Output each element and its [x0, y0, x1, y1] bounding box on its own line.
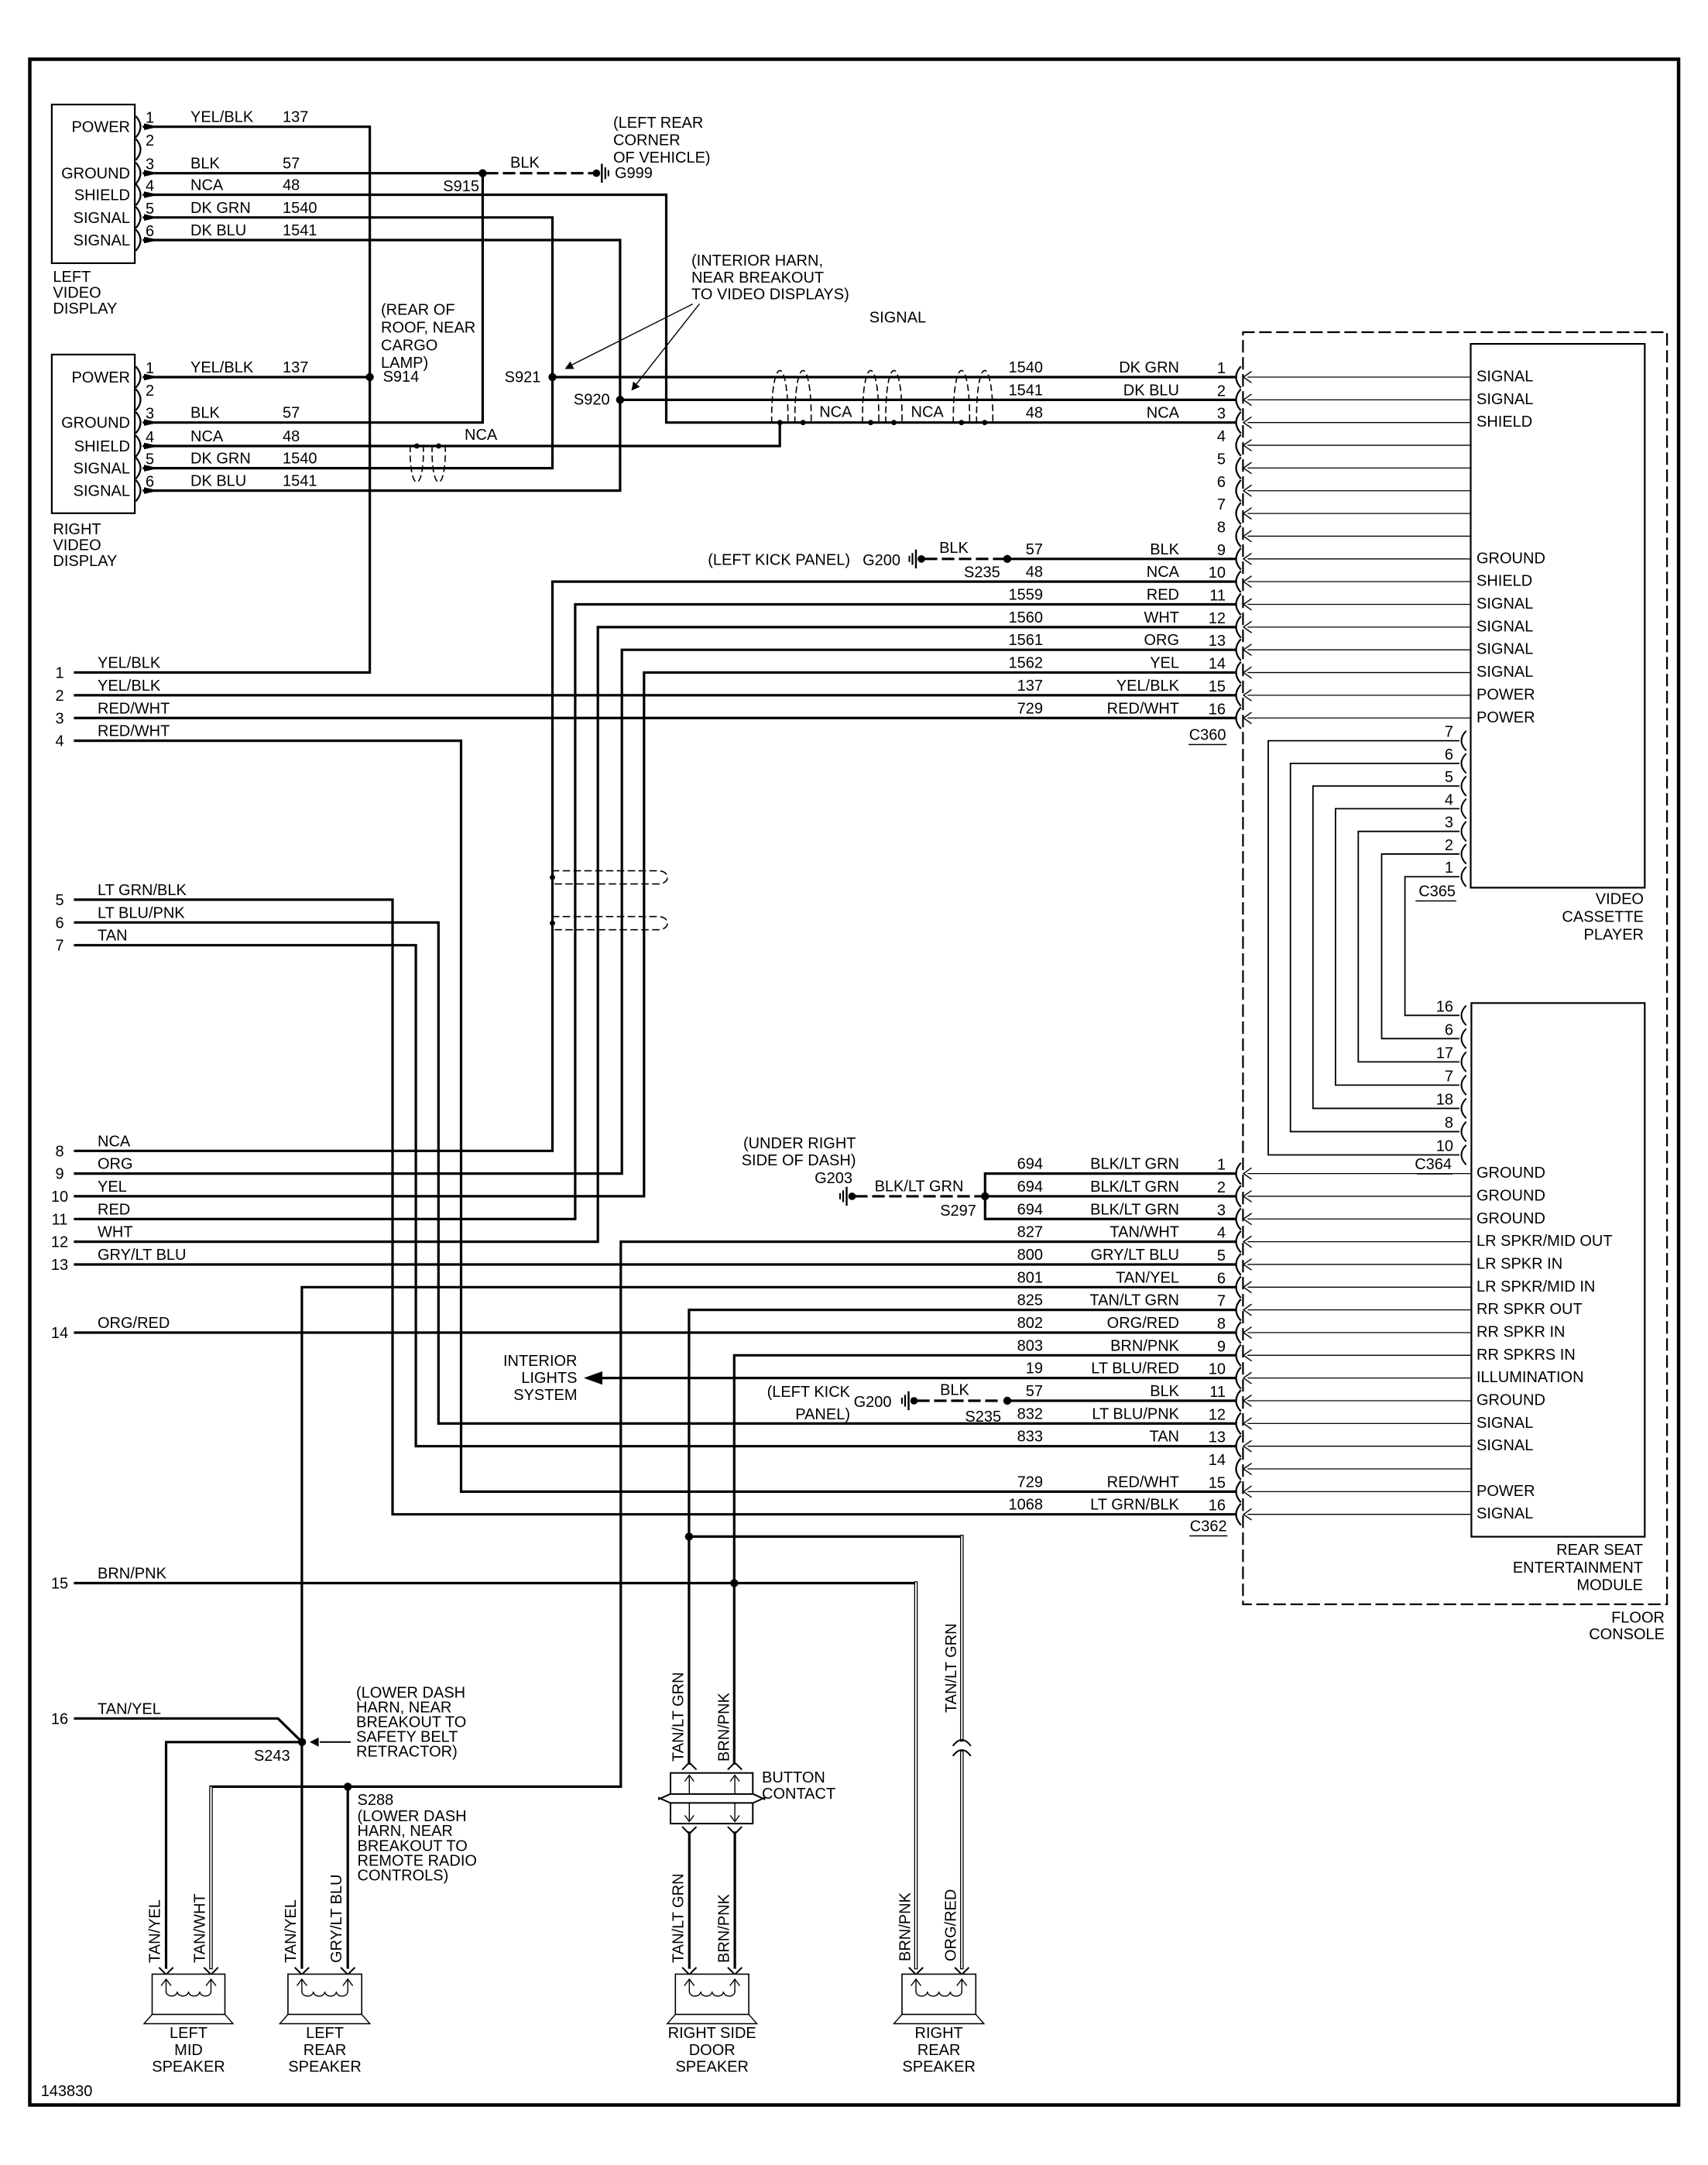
wire from video cassette player C365 pin 7 to module C364 pin 10	[1268, 741, 1459, 1155]
svg-text:12: 12	[51, 1234, 68, 1251]
svg-text:SHIELD: SHIELD	[74, 438, 130, 455]
svg-text:12: 12	[1209, 1406, 1226, 1423]
svg-text:GROUND: GROUND	[1476, 1392, 1545, 1409]
svg-text:PANEL): PANEL)	[795, 1406, 850, 1423]
svg-text:1: 1	[55, 665, 63, 682]
svg-text:RED/WHT: RED/WHT	[98, 723, 170, 740]
splice S297	[940, 1192, 989, 1220]
wire TAN/LT GRN 825 from C362 pin 7 down to junction dot	[689, 1310, 1234, 1537]
svg-text:6: 6	[1445, 1021, 1453, 1038]
svg-text:48: 48	[283, 428, 300, 445]
svg-text:LT GRN/BLK: LT GRN/BLK	[98, 882, 187, 899]
svg-text:VIDEO: VIDEO	[1596, 891, 1644, 908]
svg-text:LR SPKR IN: LR SPKR IN	[1476, 1255, 1562, 1272]
connector label C360	[1189, 727, 1226, 745]
svg-text:1: 1	[1217, 1157, 1226, 1174]
wire ORG 1561 from C360 pin 13 down to stub 9	[75, 650, 1234, 1173]
svg-text:ORG/RED: ORG/RED	[1107, 1315, 1179, 1332]
svg-text:BLK: BLK	[939, 540, 969, 557]
svg-text:CARGO: CARGO	[381, 337, 437, 354]
connector C364 pin 10 bracket	[1436, 1137, 1466, 1164]
rotated wire label BRN/PNK at right rear speaker	[897, 1892, 914, 1961]
svg-text:DK GRN: DK GRN	[190, 200, 251, 217]
wire TAN/YEL from S243 left to left mid speaker	[166, 1742, 303, 1968]
ground G203 (under right side of dash)	[815, 1170, 856, 1205]
connector C360 pin 5	[1217, 451, 1471, 478]
svg-text:TAN: TAN	[1149, 1429, 1179, 1446]
stub 5 label LT GRN/BLK	[55, 882, 187, 909]
connector C362 pin 16	[1009, 1497, 1534, 1525]
svg-text:G200: G200	[854, 1394, 892, 1411]
wire BLK 57 from left video display pin 3 to splice S915	[144, 156, 482, 177]
svg-text:SIGNAL: SIGNAL	[1476, 391, 1533, 408]
svg-text:694: 694	[1017, 1156, 1043, 1173]
label INTERIOR LIGHTS SYSTEM	[503, 1353, 578, 1404]
svg-text:1561: 1561	[1009, 632, 1044, 649]
splice S243 (lower dash harness)	[254, 1738, 306, 1765]
svg-text:BRN/PNK: BRN/PNK	[716, 1692, 733, 1762]
svg-text:SPEAKER: SPEAKER	[288, 2059, 361, 2076]
wire DK GRN 1540 from left video display pin 5 to splice S921	[144, 200, 553, 377]
stub 15 label BRN/PNK	[51, 1566, 167, 1593]
svg-text:BRN/PNK: BRN/PNK	[1110, 1337, 1180, 1354]
wire NCA 48 from C360 pin 10 down to stub 8	[75, 582, 1234, 1151]
stub 6 label LT BLU/PNK	[55, 904, 185, 932]
svg-text:11: 11	[1209, 588, 1226, 605]
svg-text:7: 7	[55, 938, 63, 955]
svg-text:2: 2	[1217, 383, 1226, 400]
svg-text:TAN/WHT: TAN/WHT	[192, 1893, 209, 1963]
rotated wire label BRN/PNK above button contact	[716, 1692, 733, 1762]
svg-text:1541: 1541	[283, 222, 317, 239]
svg-text:(REAR OF: (REAR OF	[381, 302, 455, 319]
rotated wire label BRN/PNK at right side door speaker	[716, 1893, 733, 1963]
svg-text:9: 9	[1217, 542, 1226, 559]
wire from video cassette player C365 pin 4 to module C364 pin 7	[1336, 808, 1459, 1085]
connector C364 pin 6 bracket	[1445, 1021, 1466, 1048]
right video display pin 4 bracket	[136, 429, 154, 456]
svg-text:POWER: POWER	[1476, 686, 1535, 703]
svg-text:BLK/LT GRN: BLK/LT GRN	[1090, 1179, 1179, 1196]
ground G200 at left kick panel (C360 pin 9)	[863, 551, 925, 569]
svg-text:(INTERIOR HARN,: (INTERIOR HARN,	[691, 252, 823, 269]
svg-text:SIGNAL: SIGNAL	[74, 232, 130, 249]
svg-text:1541: 1541	[283, 473, 317, 490]
svg-text:LEFT: LEFT	[170, 2025, 207, 2042]
connector C360 pin 4	[1217, 428, 1471, 455]
rotated wire label ORG/RED at right rear speaker	[943, 1889, 960, 1961]
svg-text:TAN/WHT: TAN/WHT	[1110, 1224, 1179, 1241]
stub 3 label RED/WHT	[55, 700, 170, 727]
svg-text:GROUND: GROUND	[1476, 1210, 1545, 1227]
svg-text:48: 48	[1026, 405, 1043, 422]
wire DK GRN 1540 from right video display pin 5 up to splice S921	[144, 377, 553, 472]
svg-text:RIGHT: RIGHT	[53, 521, 101, 538]
connector box U1: LEFT VIDEO DISPLAY	[52, 105, 135, 317]
svg-text:LEFT: LEFT	[53, 269, 91, 286]
note: UNDER RIGHT SIDE OF DASH	[742, 1135, 856, 1169]
svg-text:CASSETTE: CASSETTE	[1562, 909, 1644, 926]
svg-text:CORNER: CORNER	[613, 132, 681, 149]
svg-text:BLK/LT GRN: BLK/LT GRN	[1090, 1201, 1179, 1218]
svg-text:143830: 143830	[41, 2083, 93, 2100]
svg-text:RIGHT SIDE: RIGHT SIDE	[668, 2025, 756, 2042]
svg-text:19: 19	[1026, 1360, 1043, 1378]
wire YEL/BLK 137 from left video display pin 1 to S914 vertical	[75, 109, 370, 673]
connector C362 pin 1	[1017, 1156, 1545, 1184]
svg-text:S921: S921	[505, 369, 541, 386]
left video display pin 3 bracket	[136, 156, 154, 184]
stub 7 label TAN	[55, 928, 127, 955]
svg-text:BLK: BLK	[1150, 1383, 1179, 1400]
connector C360 pin 7	[1217, 496, 1471, 523]
svg-text:57: 57	[283, 405, 300, 422]
wire RED/WHT 729 from stub 3 to C360 pin 16	[75, 717, 1234, 719]
svg-text:8: 8	[1445, 1114, 1453, 1131]
connector C364 pin 17 bracket	[1436, 1045, 1466, 1071]
note: LOWER DASH HARN NEAR BREAKOUT TO REMOTE RADIO CONTROLS	[358, 1808, 477, 1884]
svg-text:G200: G200	[863, 552, 900, 569]
connector C365 pin 5 bracket	[1445, 769, 1466, 795]
svg-text:CONTACT: CONTACT	[762, 1786, 835, 1803]
svg-text:SIGNAL: SIGNAL	[1476, 1437, 1533, 1454]
connector C362 pin 2	[1017, 1179, 1545, 1206]
svg-text:4: 4	[1217, 1225, 1226, 1242]
svg-text:3: 3	[1217, 1202, 1226, 1219]
svg-text:SIGNAL: SIGNAL	[74, 483, 130, 500]
splice S235 (C362 pin 11)	[965, 1397, 1011, 1426]
dashed wire BLK from G200 to splice S235 (C362 pin 11)	[918, 1382, 1003, 1402]
connector C365 pin 6 bracket	[1445, 746, 1466, 773]
svg-text:7: 7	[1445, 724, 1453, 741]
svg-text:16: 16	[1209, 1498, 1226, 1515]
dashed box: FLOOR CONSOLE	[1243, 332, 1667, 1643]
svg-text:RIGHT: RIGHT	[915, 2025, 963, 2042]
svg-text:832: 832	[1017, 1405, 1043, 1422]
rotated wire label TAN/LT GRN at right side door speaker	[671, 1873, 688, 1963]
splice S920	[574, 391, 624, 408]
svg-text:10: 10	[51, 1189, 68, 1206]
svg-text:C362: C362	[1190, 1518, 1227, 1535]
connector C365 pin 7 bracket	[1445, 724, 1466, 750]
svg-text:MODULE: MODULE	[1576, 1577, 1643, 1594]
note: LEFT KICK PANEL (C362)	[767, 1384, 851, 1423]
svg-text:(UNDER RIGHT: (UNDER RIGHT	[743, 1135, 856, 1152]
svg-text:137: 137	[283, 359, 308, 376]
twisted pair loops on right video display wires with NCA label	[410, 427, 498, 482]
svg-text:13: 13	[1209, 633, 1226, 650]
svg-text:LT BLU/PNK: LT BLU/PNK	[1092, 1405, 1179, 1422]
connector label C365	[1416, 883, 1456, 901]
connector C360 pin 15	[1017, 678, 1535, 705]
svg-text:INTERIOR: INTERIOR	[503, 1353, 578, 1370]
connector C362 pin 6	[1017, 1269, 1596, 1297]
svg-text:TO VIDEO DISPLAYS): TO VIDEO DISPLAYS)	[691, 286, 849, 304]
connector C360 pin 16	[1017, 700, 1535, 728]
svg-text:BLK: BLK	[190, 405, 220, 422]
svg-text:YEL: YEL	[98, 1179, 127, 1196]
rotated wire label TAN/WHT at left mid speaker	[192, 1893, 209, 1963]
svg-text:16: 16	[1436, 998, 1453, 1015]
left video display pin 5 bracket	[136, 201, 154, 228]
svg-text:694: 694	[1017, 1201, 1043, 1218]
svg-text:C360: C360	[1189, 727, 1226, 744]
svg-text:MID: MID	[174, 2042, 203, 2059]
wire LT BLU/RED 19 from C362 pin 10 to INTERIOR LIGHTS SYSTEM arrow	[584, 1371, 1234, 1384]
wire BRN/PNK 803 from C362 pin 9 down to junction dot	[734, 1355, 1234, 1583]
svg-text:POWER: POWER	[71, 369, 130, 386]
svg-text:6: 6	[55, 914, 63, 932]
svg-text:16: 16	[51, 1710, 68, 1728]
connector C360 pin 12	[1009, 609, 1534, 637]
svg-text:(LEFT REAR: (LEFT REAR	[613, 115, 703, 132]
svg-text:S920: S920	[574, 391, 610, 408]
svg-text:1541: 1541	[1009, 382, 1044, 399]
svg-text:1: 1	[1217, 360, 1226, 377]
svg-text:BRN/PNK: BRN/PNK	[716, 1893, 733, 1963]
svg-text:BLK: BLK	[190, 156, 220, 173]
wire ORG/RED from inline connector down to right rear speaker	[960, 1752, 964, 1968]
svg-text:S297: S297	[940, 1203, 976, 1220]
connector C362 pin 8	[1017, 1315, 1566, 1343]
svg-text:3: 3	[1445, 815, 1453, 832]
svg-text:WHT: WHT	[98, 1224, 133, 1241]
svg-text:DK BLU: DK BLU	[190, 222, 246, 239]
rotated wire label GRY/LT BLU at left rear speaker	[328, 1875, 345, 1964]
connector C360 pin 8	[1217, 519, 1471, 546]
svg-text:ORG/RED: ORG/RED	[943, 1889, 960, 1961]
svg-text:BLK/LT GRN: BLK/LT GRN	[1090, 1156, 1179, 1173]
svg-text:GRY/LT BLU: GRY/LT BLU	[98, 1247, 187, 1264]
svg-text:SIGNAL: SIGNAL	[1476, 1415, 1533, 1432]
svg-text:ORG: ORG	[98, 1156, 133, 1173]
svg-text:ORG: ORG	[1144, 632, 1179, 649]
dashed wire BLK/LT GRN from ground G203 to S297	[856, 1179, 980, 1196]
svg-text:BRN/PNK: BRN/PNK	[897, 1892, 914, 1961]
svg-text:POWER: POWER	[1476, 709, 1535, 726]
component: LEFT REAR SPEAKER	[280, 1968, 369, 2076]
note: INTERIOR HARN NEAR BREAKOUT TO VIDEO DISPLAYS with arrows to S921 and S920	[565, 252, 849, 391]
connector C362 pin 4	[1017, 1224, 1613, 1252]
svg-text:SIGNAL: SIGNAL	[1476, 595, 1533, 612]
svg-text:RR SPKR OUT: RR SPKR OUT	[1476, 1301, 1583, 1318]
svg-text:LIGHTS: LIGHTS	[521, 1370, 577, 1387]
svg-text:LEFT: LEFT	[306, 2025, 344, 2042]
svg-text:GRY/LT BLU: GRY/LT BLU	[328, 1875, 345, 1964]
svg-text:SIGNAL: SIGNAL	[1476, 618, 1533, 635]
svg-text:10: 10	[1436, 1137, 1453, 1155]
note: REAR OF ROOF NEAR CARGO LAMP	[381, 302, 475, 372]
rotated wire label TAN/LT GRN above button contact	[671, 1672, 688, 1762]
svg-text:C365: C365	[1418, 883, 1456, 901]
splice S915	[443, 170, 486, 196]
svg-text:15: 15	[1209, 678, 1226, 695]
splice S914	[365, 369, 419, 386]
stub 13 label GRY/LT BLU	[51, 1247, 187, 1274]
svg-text:15: 15	[51, 1576, 68, 1593]
svg-text:57: 57	[1026, 541, 1043, 558]
component: LEFT MID SPEAKER	[144, 1968, 233, 2076]
svg-text:SIGNAL: SIGNAL	[1476, 369, 1533, 386]
wire LT BLU/PNK from stub 6 down to C362 pin 12	[75, 922, 1234, 1423]
box: VIDEO CASSETTE PLAYER	[1471, 344, 1645, 943]
connector C360 pin 10	[1026, 564, 1533, 592]
svg-text:REAR: REAR	[917, 2042, 961, 2059]
svg-text:CONTROLS): CONTROLS)	[358, 1867, 449, 1884]
connector C360 pin 11	[1009, 587, 1534, 615]
svg-text:802: 802	[1017, 1315, 1043, 1332]
stub 16 label TAN/YEL	[51, 1700, 161, 1728]
label SIGNAL above signal wires	[869, 310, 926, 327]
svg-text:833: 833	[1017, 1429, 1043, 1446]
svg-text:10: 10	[1209, 564, 1226, 582]
connector C362 pin 12	[1017, 1405, 1534, 1433]
svg-text:POWER: POWER	[1476, 1483, 1535, 1500]
svg-text:2: 2	[1445, 837, 1453, 854]
svg-text:GROUND: GROUND	[1476, 1187, 1545, 1204]
left video display pin 6 bracket	[136, 223, 154, 250]
svg-text:LT BLU/PNK: LT BLU/PNK	[98, 904, 185, 921]
svg-text:5: 5	[1217, 451, 1226, 468]
svg-text:SHIELD: SHIELD	[1476, 573, 1532, 590]
svg-text:729: 729	[1017, 1474, 1043, 1491]
svg-text:16: 16	[1209, 701, 1226, 718]
svg-text:4: 4	[1217, 428, 1226, 445]
connector C360 pin 2	[1009, 382, 1534, 410]
box: REAR SEAT ENTERTAINMENT MODULE	[1471, 1003, 1645, 1594]
svg-text:G999: G999	[615, 165, 653, 182]
wire from video cassette player C365 pin 6 to module C364 pin 8	[1291, 763, 1459, 1132]
svg-text:LT BLU/RED: LT BLU/RED	[1091, 1360, 1179, 1378]
svg-text:1540: 1540	[1009, 359, 1044, 376]
svg-text:SPEAKER: SPEAKER	[675, 2059, 748, 2076]
svg-text:7: 7	[1217, 496, 1226, 513]
component: BUTTON CONTACT	[659, 1764, 835, 1968]
svg-text:15: 15	[1209, 1474, 1226, 1491]
svg-text:ORG/RED: ORG/RED	[98, 1315, 170, 1332]
connector C362 pin 5	[1017, 1247, 1563, 1275]
connector C362 pin 3	[1017, 1201, 1545, 1229]
svg-text:137: 137	[283, 109, 308, 126]
svg-text:BLK: BLK	[510, 155, 540, 172]
note: LOWER DASH HARN NEAR BREAKOUT TO SAFETY BELT RETRACTOR with arrow to S243	[310, 1685, 466, 1761]
svg-text:13: 13	[1209, 1429, 1226, 1446]
splice S921	[505, 369, 557, 386]
svg-text:6: 6	[1217, 1270, 1226, 1287]
svg-text:RED: RED	[98, 1201, 130, 1218]
connector C362 pin 7	[1017, 1292, 1583, 1320]
connector C365 pin 4 bracket	[1445, 791, 1466, 818]
wire LT GRN/BLK from stub 5 down to C362 pin 16	[75, 900, 1234, 1515]
stub 11 label RED	[52, 1201, 131, 1228]
splice S288 (lower dash harness)	[344, 1782, 393, 1809]
svg-text:ROOF, NEAR: ROOF, NEAR	[381, 320, 475, 337]
svg-text:10: 10	[1209, 1361, 1226, 1378]
svg-text:SIGNAL: SIGNAL	[1476, 641, 1533, 658]
connector C364 pin 18 bracket	[1436, 1091, 1466, 1117]
svg-text:NCA: NCA	[190, 428, 224, 445]
wire BLK 57 from S235 to C362 pin 11	[1007, 1399, 1234, 1402]
svg-text:SPEAKER: SPEAKER	[152, 2059, 225, 2076]
stub 8 label NCA	[55, 1133, 130, 1160]
svg-text:1559: 1559	[1009, 587, 1044, 604]
twisted pair loop groups on signal wires 1540/1541/48 with NCA labels	[772, 370, 993, 425]
dashed wire BLK from S915 to ground G999	[487, 155, 592, 173]
svg-text:NCA: NCA	[190, 177, 224, 194]
wire TAN/WHT through S288 from left mid speaker to C362 pin 4 vertical	[211, 1786, 621, 1968]
wire GRY/LT BLU from S288 down to left rear speaker	[347, 1786, 349, 1968]
connector C360 pin 1	[1009, 359, 1534, 387]
right video display pin 2 bracket	[136, 383, 154, 410]
svg-text:TAN/LT GRN: TAN/LT GRN	[943, 1623, 960, 1713]
wire RED/WHT from stub 4 down to C362 pin 15	[75, 741, 1234, 1492]
svg-text:TAN: TAN	[98, 928, 128, 945]
svg-text:YEL/BLK: YEL/BLK	[98, 655, 161, 672]
connector C365 pin 3 bracket	[1445, 815, 1466, 841]
svg-text:FLOOR: FLOOR	[1611, 1609, 1665, 1626]
svg-text:SHIELD: SHIELD	[1476, 413, 1532, 431]
svg-text:18: 18	[1436, 1091, 1453, 1108]
svg-text:14: 14	[1209, 656, 1226, 673]
left video display pin 4 bracket	[136, 178, 154, 205]
stub 14 label ORG/RED	[51, 1315, 170, 1342]
wire WHT 1560 from C360 pin 12 down to stub 12	[75, 627, 1234, 1242]
connector box U2: RIGHT VIDEO DISPLAY	[52, 355, 135, 570]
svg-text:G203: G203	[815, 1170, 852, 1187]
svg-text:C364: C364	[1415, 1156, 1452, 1173]
wire DK GRN 1540 from S921 to C360 pin 1	[553, 376, 1235, 378]
svg-text:LAMP): LAMP)	[381, 355, 428, 372]
svg-text:1562: 1562	[1009, 655, 1044, 672]
wire BLK 57 from right video display pin 3 up to splice S915	[144, 173, 482, 426]
svg-text:S243: S243	[254, 1748, 290, 1765]
svg-text:BLK: BLK	[1150, 541, 1179, 558]
note: LEFT KICK PANEL (C360)	[708, 552, 850, 569]
connector C360 pin 9	[1026, 541, 1545, 569]
wire from video cassette player C365 pin 2 to module C364 pin 6	[1382, 854, 1459, 1038]
connector C364 pin 8 bracket	[1445, 1114, 1466, 1141]
svg-text:BRN/PNK: BRN/PNK	[98, 1566, 167, 1583]
svg-text:GROUND: GROUND	[61, 166, 130, 183]
stub 4 label RED/WHT	[55, 723, 170, 750]
svg-text:WHT: WHT	[1144, 609, 1179, 626]
svg-text:GRY/LT BLU: GRY/LT BLU	[1091, 1247, 1180, 1264]
rotated wire label TAN/YEL at left rear speaker	[283, 1899, 300, 1963]
svg-text:REAR: REAR	[304, 2042, 347, 2059]
svg-text:S288: S288	[358, 1792, 394, 1809]
twisted pair clamp loops around vertical wire bundle	[550, 871, 667, 930]
svg-text:LR SPKR/MID IN: LR SPKR/MID IN	[1476, 1278, 1595, 1295]
left video display pin 1 bracket	[136, 110, 154, 137]
wire BRN/PNK from junction down to button contact	[733, 1583, 736, 1764]
svg-text:NCA: NCA	[465, 427, 498, 444]
svg-text:S235: S235	[964, 564, 1000, 582]
stub 9 label ORG	[55, 1156, 132, 1183]
svg-text:SYSTEM: SYSTEM	[513, 1387, 577, 1404]
svg-text:(LEFT KICK: (LEFT KICK	[767, 1384, 851, 1401]
svg-text:8: 8	[1217, 1316, 1226, 1333]
svg-text:DOOR: DOOR	[689, 2042, 736, 2059]
svg-text:ILLUMINATION: ILLUMINATION	[1476, 1369, 1584, 1386]
svg-text:801: 801	[1017, 1269, 1043, 1286]
svg-text:694: 694	[1017, 1179, 1043, 1196]
svg-text:GROUND: GROUND	[1476, 550, 1545, 567]
svg-text:11: 11	[1209, 1384, 1226, 1401]
wire NCA 48 from right video display pin 4 joining NCA wire at twisted pair	[144, 423, 780, 450]
connector C360 pin 3	[1026, 405, 1533, 433]
svg-text:7: 7	[1445, 1068, 1453, 1085]
svg-text:BLK: BLK	[940, 1382, 969, 1399]
